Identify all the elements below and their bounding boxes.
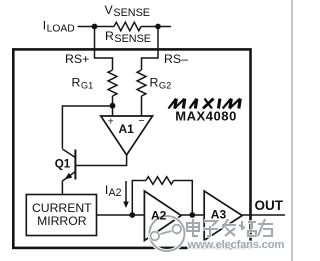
watermark elecfans logo circle [150, 216, 185, 251]
watermark glyph fa [222, 219, 236, 236]
wire node A1+ to Q1 collector [62, 106, 112, 149]
svg-text:G2: G2 [159, 80, 171, 90]
watermark glyph dian [187, 219, 199, 236]
op-amp A3 [204, 191, 242, 240]
watermark url text [187, 239, 285, 251]
arrow IA2 [125, 181, 127, 203]
wire RS- down jog [142, 27, 159, 71]
svg-text:R: R [150, 75, 159, 89]
wire OUT [242, 214, 285, 216]
svg-text:R: R [72, 75, 81, 89]
wire RG2 to A1 - input [141, 96, 143, 116]
op-amp A1 [101, 116, 153, 155]
node dot VSENSE right [155, 24, 161, 30]
svg-text:SENSE: SENSE [114, 33, 151, 45]
resistor feedback [146, 177, 174, 185]
node dot RG1/A1+ [110, 103, 116, 109]
wire RS+ down jog [95, 27, 113, 71]
svg-text:MIRROR: MIRROR [37, 214, 87, 228]
MAXIM logo [169, 99, 241, 109]
wire A2 out to A3 [181, 214, 204, 216]
resistor RG2 [137, 70, 146, 96]
svg-text:Q1: Q1 [55, 157, 71, 170]
svg-text:CURRENT: CURRENT [32, 201, 92, 215]
wire current mirror to A2 [97, 214, 145, 216]
node dot A2 output [189, 212, 195, 218]
IC boundary MAX4080 [13, 49, 250, 248]
wire feedback loop left [132, 181, 146, 216]
resistor RSENSE [114, 22, 141, 31]
svg-text:LOAD: LOAD [47, 23, 75, 34]
svg-text:OUT: OUT [255, 198, 284, 213]
svg-text:+: + [108, 115, 114, 127]
svg-text:A1: A1 [119, 122, 135, 136]
watermark chinese glyphs [187, 219, 273, 236]
svg-text:−: − [138, 115, 144, 127]
wire top right stub [141, 26, 171, 28]
wire RG1 to A1 + input [112, 96, 114, 116]
watermark glyph zi [203, 221, 218, 236]
wire ILOAD lead [78, 26, 115, 28]
svg-text:V: V [105, 3, 114, 17]
svg-text:MAX4080: MAX4080 [175, 109, 237, 124]
wire A1 output to Q1 base [75, 155, 126, 166]
node dot A2 input [129, 212, 135, 218]
watermark right border line [291, 0, 293, 261]
svg-text:SENSE: SENSE [113, 7, 150, 19]
svg-text:R: R [105, 29, 114, 43]
svg-text:www.elecfans.com: www.elecfans.com [187, 239, 285, 251]
watermark glyph shao [239, 221, 256, 236]
svg-text:A2: A2 [109, 187, 122, 199]
wire Q1 emitter to current mirror [61, 181, 63, 195]
resistor RG1 [108, 70, 117, 96]
svg-text:RS+: RS+ [65, 52, 89, 66]
watermark glyph you [258, 219, 273, 236]
svg-text:G1: G1 [81, 80, 93, 90]
op-amp A2 [144, 191, 181, 241]
transistor Q1 [62, 149, 75, 181]
svg-text:RS–: RS– [164, 52, 188, 66]
node dot VSENSE left [92, 24, 98, 30]
svg-text:A2: A2 [151, 208, 167, 222]
wire feedback loop right [174, 181, 193, 216]
current mirror box [26, 195, 96, 236]
